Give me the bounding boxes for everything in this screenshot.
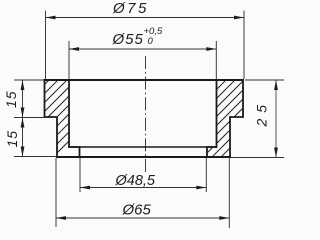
dimension Ø75 extension lines xyxy=(46,11,245,80)
dimension Ø75 line xyxy=(46,17,245,19)
dimension Ø65 extension lines xyxy=(56,158,229,228)
svg-text:Ø48,5: Ø48,5 xyxy=(115,173,156,189)
dimension 25 label xyxy=(254,99,270,128)
dimension Ø55 arrows xyxy=(69,47,216,51)
left wall outline xyxy=(45,80,80,157)
svg-text:25: 25 xyxy=(254,99,270,128)
svg-text:15: 15 xyxy=(3,90,19,108)
dimension Ø75 arrows xyxy=(46,16,245,20)
dimension Ø48,5 arrows xyxy=(80,186,206,190)
dimension 15 lower line xyxy=(22,118,24,157)
dimension Ø75 label xyxy=(112,0,149,17)
part bottom edge xyxy=(57,156,230,158)
right wall section hatch xyxy=(133,78,300,164)
dimension Ø48,5 extension lines xyxy=(80,158,206,192)
dimension 25 arrows xyxy=(274,80,278,158)
dimension Ø55 line xyxy=(69,48,216,50)
svg-text:0: 0 xyxy=(148,36,154,47)
dimension Ø55 extension lines xyxy=(69,41,216,79)
svg-text:15: 15 xyxy=(4,130,20,148)
dimension 15 upper extension lines xyxy=(14,80,57,118)
dimension 15 upper arrows xyxy=(21,80,25,118)
dimension 25 extension lines xyxy=(231,80,284,158)
dimension Ø65 arrows xyxy=(56,216,229,220)
bore bottom shoulder edge xyxy=(69,146,217,148)
left wall section hatch xyxy=(0,78,132,164)
dimension 15 upper line xyxy=(22,80,24,118)
dimension 25 line xyxy=(275,80,277,158)
dimension 15 lower arrows xyxy=(21,118,25,157)
dimension Ø48,5 label xyxy=(115,173,156,189)
svg-text:Ø55: Ø55 xyxy=(112,31,144,48)
svg-text:Ø75: Ø75 xyxy=(112,0,149,17)
dimension Ø48,5 line xyxy=(80,187,206,189)
dimension Ø65 line xyxy=(56,217,229,219)
svg-text:+0,5: +0,5 xyxy=(144,26,163,37)
dimension 15 lower extension line xyxy=(14,156,57,158)
part top edge xyxy=(45,79,244,81)
dimension Ø65 label xyxy=(122,202,152,219)
svg-text:Ø65: Ø65 xyxy=(122,202,152,219)
centerline xyxy=(145,56,147,172)
dimension Ø55 label with tolerance +0,5/0 xyxy=(112,26,163,48)
dimension 15 upper label xyxy=(3,90,19,108)
right wall outline xyxy=(207,80,243,157)
dimension 15 lower label xyxy=(4,130,20,148)
